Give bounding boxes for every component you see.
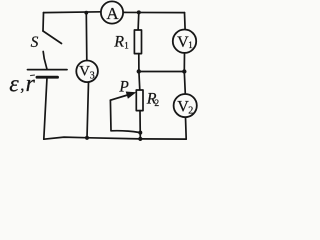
svg-text:R: R [113, 34, 124, 51]
svg-text:P: P [118, 78, 129, 95]
svg-text:1: 1 [188, 40, 193, 50]
svg-text:r: r [26, 71, 36, 97]
svg-text:2: 2 [188, 106, 193, 117]
svg-text:A: A [106, 4, 119, 23]
svg-text:,: , [20, 76, 24, 95]
svg-text:S: S [31, 34, 39, 51]
svg-text:V: V [79, 64, 90, 80]
svg-text:3: 3 [90, 70, 95, 81]
svg-text:2: 2 [154, 99, 159, 109]
svg-text:ε: ε [9, 71, 19, 97]
svg-text:1: 1 [124, 40, 129, 50]
